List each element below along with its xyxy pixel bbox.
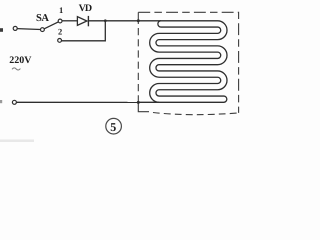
dashed enclosure bottom edge [153,113,239,115]
junction: wire enters box top [137,19,140,22]
wire: bottom terminal to heater box [16,101,138,103]
heating element tube edge B (left end cap, inner right turns, outer left turns) [150,21,221,103]
edge smudge bottom left [0,140,34,143]
svg-text:VD: VD [79,3,92,14]
box corner stub top left [137,12,139,20]
switch SA blade [44,22,58,29]
contact 2 [58,39,62,43]
paper background [0,0,250,142]
contact 1 [58,19,62,23]
svg-text:220V: 220V [9,55,32,66]
junction node on diode output [104,19,107,22]
AC tilde mark [12,68,20,70]
svg-text:5: 5 [110,120,116,134]
switch SA pivot [41,28,45,32]
svg-text:SA: SA [36,13,49,24]
svg-text:1: 1 [59,5,63,15]
edge mark left top [0,28,3,32]
edge mark left bottom [0,100,2,103]
figure number 5 circle [106,118,122,134]
wire: contact 2 bypass to node [62,21,106,41]
wire: top terminal to switch pivot [17,28,40,31]
wire: contact 1 to diode anode [62,20,77,22]
box corner bottom left [138,102,149,111]
terminal: 220V top [13,26,17,30]
heating element tube edge A (entry line, outer right turns, inner left turns, right end cap, exit line) [138,21,227,103]
svg-text:2: 2 [58,27,62,37]
junction: wire exits box bottom [137,101,140,104]
diode VD triangle [77,17,87,26]
terminal: 220V bottom [12,100,16,104]
diode VD cathode bar [87,16,89,26]
wire: diode cathode to heater box [88,20,138,22]
dashed enclosure left edge [137,21,139,103]
dashed enclosure top and right edges [138,12,238,113]
